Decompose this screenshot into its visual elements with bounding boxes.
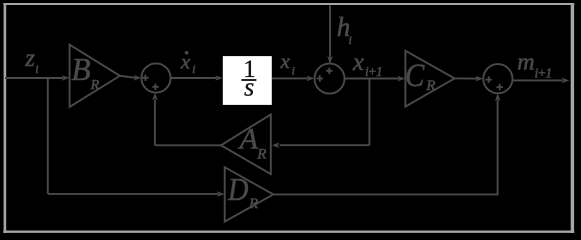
svg-text:R: R [90, 78, 100, 93]
svg-text:x: x [352, 49, 364, 76]
svg-text:R: R [425, 78, 435, 94]
svg-text:i+1: i+1 [535, 66, 552, 81]
svg-text:i: i [192, 62, 195, 76]
svg-text:x: x [280, 49, 291, 73]
svg-text:i: i [292, 63, 295, 77]
svg-text:R: R [248, 196, 258, 212]
svg-text:R: R [256, 147, 266, 163]
svg-text:z: z [24, 45, 35, 72]
svg-text:m: m [517, 50, 534, 76]
svg-text:i: i [35, 62, 38, 76]
svg-text:i: i [349, 33, 352, 47]
svg-text:s: s [244, 73, 254, 102]
svg-text:B: B [71, 52, 90, 87]
svg-text:i+1: i+1 [365, 64, 382, 79]
svg-text:A: A [238, 122, 259, 155]
svg-text:D: D [227, 172, 249, 207]
svg-text:C: C [405, 58, 425, 94]
